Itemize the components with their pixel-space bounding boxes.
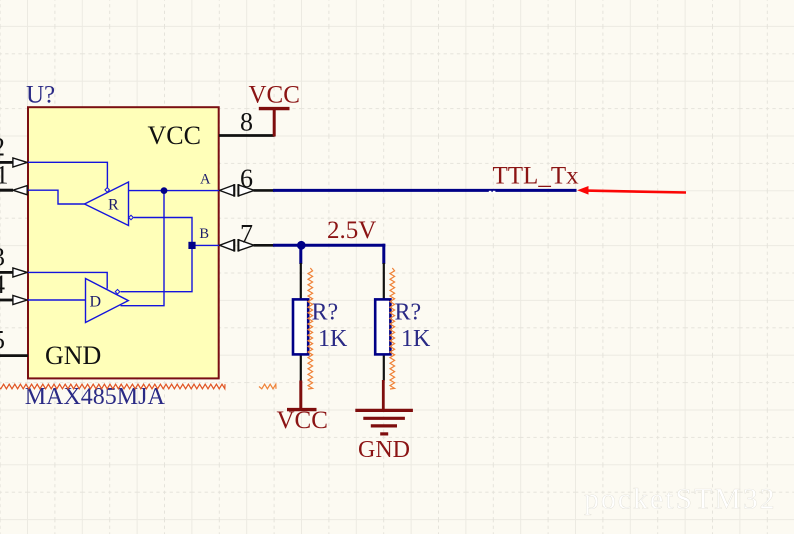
wire drop right <box>382 244 385 264</box>
svg-text:5: 5 <box>0 325 5 354</box>
svg-text:4: 4 <box>0 270 5 299</box>
wire B net from R diamond <box>121 218 193 292</box>
receiver R triangle <box>85 182 129 226</box>
svg-text:TTL_Tx: TTL_Tx <box>493 163 580 190</box>
pin 6 A <box>200 164 274 197</box>
svg-text:7: 7 <box>240 219 253 248</box>
junction A <box>161 187 168 194</box>
VCC power symbol top <box>249 82 300 137</box>
svg-text:VCC: VCC <box>277 407 328 434</box>
svg-text:R: R <box>108 196 119 213</box>
svg-text:2: 2 <box>0 132 5 161</box>
wire drop left <box>299 245 302 264</box>
pin 1 RO <box>0 161 27 195</box>
svg-text:R?: R? <box>312 299 339 325</box>
svg-text:8: 8 <box>240 108 253 137</box>
svg-text:A: A <box>200 171 211 187</box>
pin 3 DE <box>0 242 27 277</box>
svg-text:2.5V: 2.5V <box>327 217 376 244</box>
svg-text:B: B <box>199 226 209 242</box>
pin 4 DI <box>0 270 27 305</box>
svg-text:6: 6 <box>240 164 253 193</box>
error zigzag short segment <box>259 384 276 389</box>
svg-text:D: D <box>90 293 102 310</box>
svg-text:U?: U? <box>26 82 55 109</box>
wire pin3 to D enable <box>28 272 107 288</box>
junction pin7 <box>297 241 306 250</box>
red pointer arrow <box>577 186 686 195</box>
svg-text:VCC: VCC <box>249 82 300 109</box>
wire net A external (pin6 to TTL_Tx) <box>273 189 577 192</box>
R inverting input diamond <box>129 215 134 220</box>
svg-text:pocketSTM32: pocketSTM32 <box>584 483 777 516</box>
pin 5 GND <box>0 325 101 369</box>
svg-text:1K: 1K <box>318 326 348 352</box>
driver D triangle <box>86 279 129 323</box>
wire A to D output <box>121 191 165 306</box>
wire B to pin 7 <box>192 244 219 246</box>
junction B (square) <box>188 242 195 249</box>
D inverting output diamond <box>115 289 120 294</box>
wire net B external (pin7 to divider) <box>273 244 385 247</box>
error zigzag right resistor <box>390 268 395 389</box>
VCC power symbol bottom <box>277 381 328 434</box>
IC U1 body (MAX485) <box>28 107 219 378</box>
wire artifacts (white ticks) <box>489 191 492 194</box>
svg-text:VCC: VCC <box>148 121 201 150</box>
error zigzag under MAX485MJA <box>0 384 225 389</box>
resistor R?b 1K <box>375 263 431 381</box>
svg-text:1K: 1K <box>401 326 431 352</box>
resistor R?a 1K <box>293 263 348 382</box>
svg-text:3: 3 <box>0 242 5 271</box>
svg-text:GND: GND <box>358 437 410 463</box>
svg-text:1: 1 <box>0 161 9 190</box>
pin 8 VCC <box>148 108 275 150</box>
svg-text:GND: GND <box>45 341 101 370</box>
wire pin4 to D input <box>28 299 86 301</box>
ground symbol GND <box>355 380 413 463</box>
wire pin1 to R output <box>28 190 85 204</box>
svg-text:R?: R? <box>395 299 422 325</box>
wire A net inside (R input / pin 6) <box>129 190 220 192</box>
wire pin2 to R enable <box>28 162 107 187</box>
pin 2 /RE <box>0 132 27 167</box>
error zigzag left resistor <box>308 268 313 389</box>
pin 7 B <box>199 219 274 251</box>
R enable diamond <box>105 188 110 193</box>
